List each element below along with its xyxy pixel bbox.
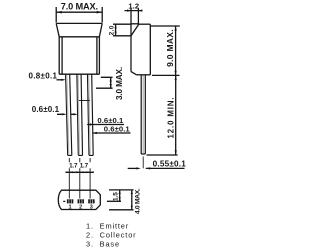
svg-text:2: 2 [79, 205, 82, 211]
dimension 4.0 MAX dimension line [131, 190, 133, 210]
dimension 1.2 dimension line [125, 10, 143, 12]
svg-text:3. Base: 3. Base [86, 240, 120, 249]
front view body left inner wall [61, 37, 63, 74]
dimension 3.0 MAX arrowheads [110, 77, 112, 88]
dimension 9.0 MAX top tick [151, 25, 180, 27]
front view body bottom line [59, 73, 99, 75]
pin 1 bottom view [67, 199, 73, 203]
dimension 1.5 dimension line [119, 190, 121, 201]
side view front chamfer slant [131, 24, 139, 36]
svg-text:1: 1 [68, 205, 71, 211]
side view lead center extension line [142, 157, 144, 169]
svg-text:1.5: 1.5 [113, 192, 120, 201]
front view body right inner wall [96, 37, 98, 74]
dimension 2.0 upper tick [113, 23, 131, 25]
front view cap right slant [99, 23, 102, 36]
dimension 0.55±0.1 dimension line left segment [128, 167, 138, 169]
dimension 1.2 arrowheads [127, 9, 142, 11]
label 0.6±0.1 right-upper leader [87, 124, 124, 126]
front view cap bottom line [59, 36, 99, 38]
lead 2 front view [77, 74, 83, 155]
dimension 2.0 dimension line [115, 24, 117, 36]
svg-text:4.0 MAX.: 4.0 MAX. [134, 188, 141, 214]
dimension 12.0 MIN lead-end extension line [147, 154, 178, 156]
lead 1 front view [66, 74, 72, 155]
label 0.6±0.1 left arrowheads [62, 113, 78, 115]
dimension 7.0 MAX arrowheads [56, 11, 102, 14]
dimension 1.5 arrowheads [119, 190, 121, 201]
dimension 0.55±0.1 left arrowhead [136, 167, 140, 169]
dimension 2.0 arrowheads [115, 24, 117, 36]
side view left edge [130, 24, 132, 72]
svg-text:0.8±0.1: 0.8±0.1 [29, 72, 58, 81]
pin 2 bottom view [78, 199, 84, 203]
label 0.8±0.1 leader [57, 79, 63, 81]
svg-text:1.7: 1.7 [80, 162, 89, 169]
dimension 12.0 MIN arrowheads [175, 75, 177, 155]
label 0.6±0.1 left leader [57, 113, 74, 115]
svg-text:7.0 MAX.: 7.0 MAX. [61, 2, 98, 12]
dimension 3.0 MAX dimension line [110, 77, 112, 88]
bottom view outline [58, 190, 100, 209]
dimension 2.0 lower tick [113, 35, 131, 37]
dimension 0.55±0.1 dimension line right segment [146, 167, 185, 169]
short tick between lead2 and lead3 [79, 100, 90, 102]
front view body right outer wall [98, 37, 100, 74]
label 0.8±0.1 leader arrowhead [61, 79, 66, 81]
svg-text:0.55±0.1: 0.55±0.1 [153, 159, 187, 168]
body-bottom extension tick shared by 9.0 and 12.0 [152, 74, 180, 76]
svg-text:2.0: 2.0 [109, 25, 116, 35]
dimension 1.5 pin centerline extension [107, 200, 121, 202]
dimension 1.7 extension line pin2 [79, 158, 81, 199]
front view cap top line [56, 22, 102, 24]
svg-text:0.6±0.1: 0.6±0.1 [32, 105, 60, 114]
side view body top line [138, 23, 150, 25]
svg-text:9.0 MAX.: 9.0 MAX. [165, 29, 175, 67]
dimension 4.0 MAX bottom extension line [109, 209, 134, 211]
index dash left of pin 1 [63, 200, 65, 202]
side view right edge [149, 24, 151, 75]
pin 3 bottom view [88, 199, 94, 203]
dimension 7.0 MAX extension lines [56, 7, 102, 23]
dimension 3.0 MAX extension ticks [96, 77, 113, 88]
dimension 1.7 arrowheads [66, 171, 94, 173]
dimension 9.0 MAX arrowheads [175, 26, 177, 75]
svg-text:2. Collector: 2. Collector [86, 231, 136, 240]
svg-text:3.0 MAX.: 3.0 MAX. [115, 67, 124, 100]
lead 3 front view [88, 74, 94, 155]
side view top surface line [131, 23, 139, 25]
dimension 9.0 MAX dimension line [175, 26, 177, 75]
label 0.6±0.1 right-lower arrowhead [93, 132, 97, 134]
dimension 1.7 dimension line [66, 171, 93, 173]
front view body left outer wall [58, 37, 60, 74]
side view lead [141, 75, 145, 154]
side view tab/top-surface extension lines [131, 8, 138, 24]
dimension 4.0 MAX arrowheads [131, 190, 133, 210]
svg-text:0.6±0.1: 0.6±0.1 [104, 124, 131, 133]
svg-text:12.0 MIN.: 12.0 MIN. [167, 97, 176, 139]
side view bottom-left corner chamfer [131, 72, 137, 75]
front view cap left slant [56, 23, 59, 36]
label 0.6±0.1 right-lower leader [93, 132, 131, 134]
dimension 1.7 extension line pin1 [68, 158, 70, 199]
side view body bottom [137, 74, 151, 76]
dimension 1.7 extension line pin3 [89, 158, 91, 199]
label 0.6±0.1 right-upper arrowhead [87, 123, 91, 125]
dimension 12.0 MIN dimension line [175, 75, 177, 155]
dimension 0.55±0.1 right arrowhead [146, 167, 150, 169]
dimension 1.5 top extension line [109, 189, 134, 191]
dimension 7.0 MAX dimension line [56, 11, 102, 13]
svg-text:1.2: 1.2 [128, 2, 139, 11]
svg-text:1. Emitter: 1. Emitter [86, 222, 129, 231]
svg-text:1.7: 1.7 [69, 162, 78, 169]
svg-text:3: 3 [90, 205, 93, 211]
